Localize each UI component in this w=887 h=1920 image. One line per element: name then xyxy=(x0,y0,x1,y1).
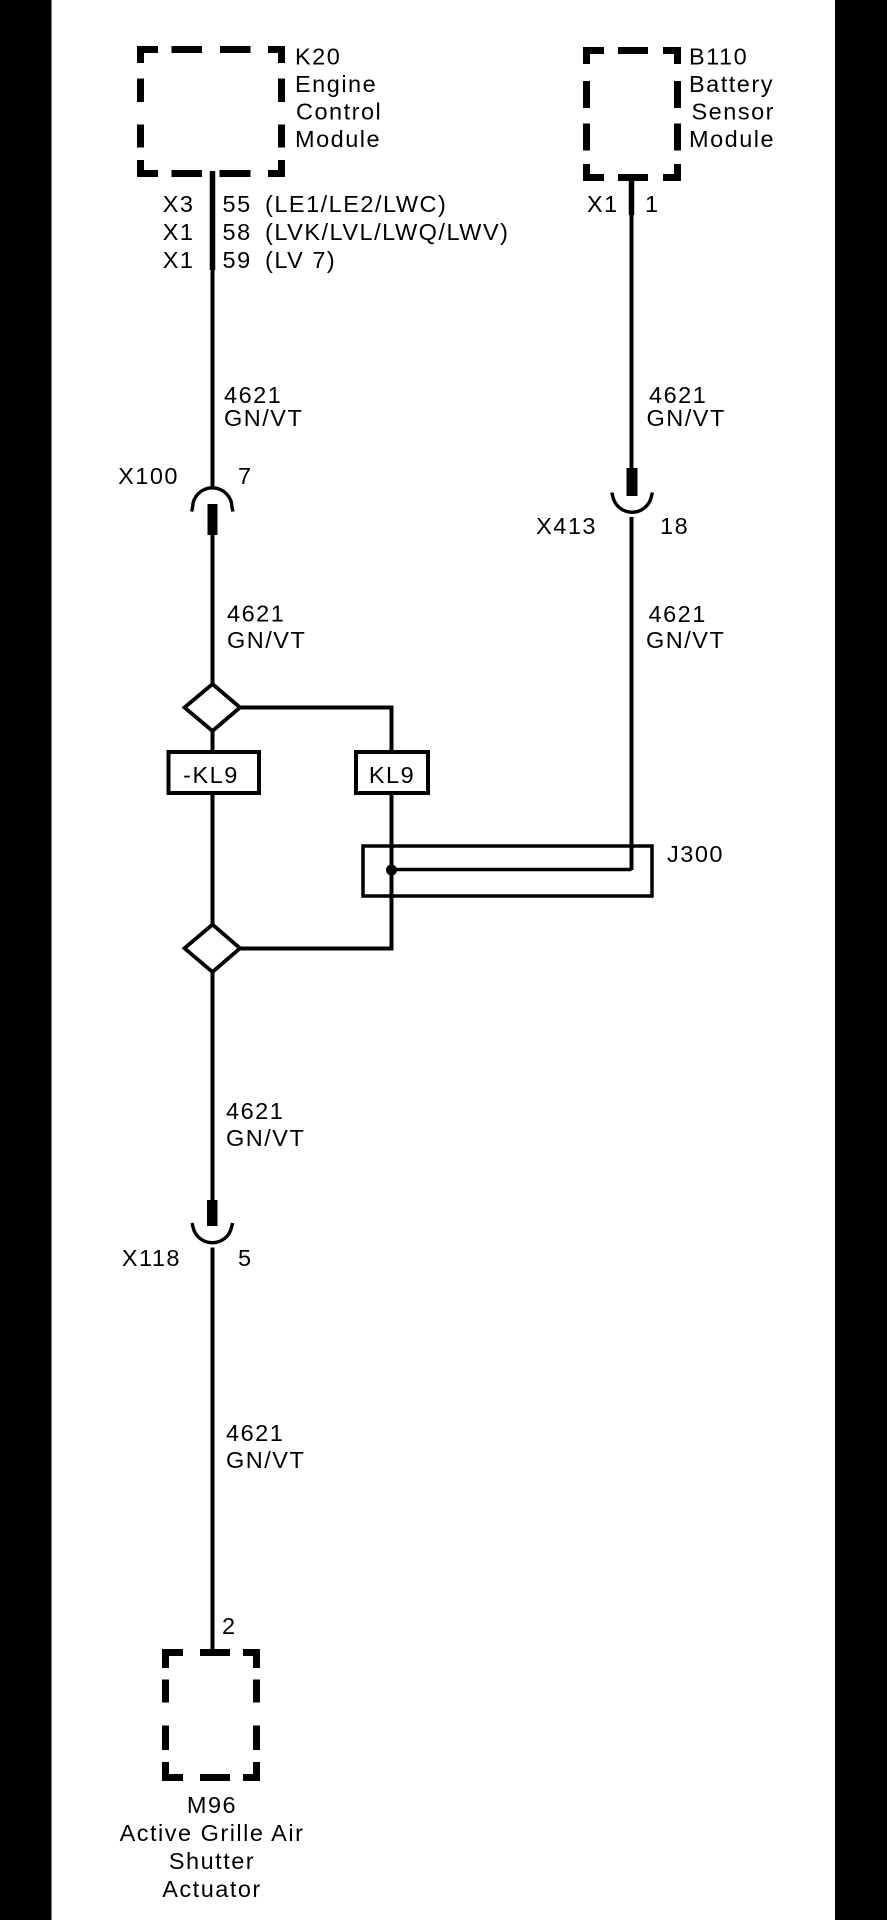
module B110 dashed box xyxy=(583,47,681,181)
wire: X413 to J300 bus xyxy=(630,517,634,870)
svg-text:7: 7 xyxy=(238,463,253,489)
splice pack J300 outer box xyxy=(363,846,652,896)
connector label X118 / 5 xyxy=(122,1245,253,1271)
svg-text:X118: X118 xyxy=(122,1245,181,1271)
svg-text:Module: Module xyxy=(295,126,381,152)
svg-text:(LVK/LVL/LWQ/LWV): (LVK/LVL/LWQ/LWV) xyxy=(265,219,509,245)
svg-text:(LV 7): (LV 7) xyxy=(265,247,336,273)
option box KL9 xyxy=(356,752,428,793)
connector X413 pin bar xyxy=(627,468,638,496)
svg-text:X413: X413 xyxy=(536,513,597,539)
svg-text:GN/VT: GN/VT xyxy=(646,627,725,653)
junction dot on J300 bus xyxy=(386,865,397,876)
svg-text:B110: B110 xyxy=(689,44,748,70)
svg-text:X1: X1 xyxy=(163,219,195,245)
svg-text:X1: X1 xyxy=(163,247,195,273)
wire: K20 pin stem (thick) xyxy=(210,171,216,270)
wire label 4621 GN/VT (right upper) xyxy=(647,382,726,431)
wire: diamond 1 to KL9 branch (horizontal) xyxy=(240,706,392,710)
svg-text:K20: K20 xyxy=(295,44,341,70)
wire: X100 to splice diamond 1 xyxy=(211,535,215,684)
connector X413 arc xyxy=(612,493,653,513)
svg-text:J300: J300 xyxy=(667,841,724,867)
label M96 actuator name xyxy=(120,1792,305,1902)
svg-text:Shutter: Shutter xyxy=(169,1848,255,1874)
wire: K20 to connector X100 xyxy=(211,171,215,489)
wire label 4621 GN/VT (left upper) xyxy=(224,382,303,431)
connector label X100 / 7 xyxy=(118,463,252,489)
svg-text:Battery: Battery xyxy=(689,71,774,97)
wire: X118 to M96 actuator xyxy=(211,1248,215,1653)
svg-text:59: 59 xyxy=(223,247,252,273)
label B110 module name xyxy=(689,44,775,153)
svg-text:Control: Control xyxy=(296,99,382,125)
option box -KL9 xyxy=(169,752,260,793)
svg-text:Active Grille Air: Active Grille Air xyxy=(120,1820,305,1846)
svg-text:4621: 4621 xyxy=(226,1098,284,1124)
svg-text:2: 2 xyxy=(222,1613,237,1639)
svg-text:-KL9: -KL9 xyxy=(183,762,239,788)
svg-text:GN/VT: GN/VT xyxy=(227,627,306,653)
svg-text:M96: M96 xyxy=(187,1792,237,1818)
connector X118 pin bar xyxy=(207,1200,218,1226)
svg-text:GN/VT: GN/VT xyxy=(226,1447,305,1473)
wire label 4621 GN/VT (right middle) xyxy=(646,601,725,653)
svg-text:Module: Module xyxy=(689,126,775,152)
svg-text:X100: X100 xyxy=(118,463,179,489)
module K20 dashed box xyxy=(137,46,285,177)
splice diamond 1 xyxy=(185,684,241,731)
module M96 dashed box xyxy=(162,1649,260,1781)
svg-text:Engine: Engine xyxy=(295,71,377,97)
B110 pin row X1 / 1 xyxy=(587,191,660,217)
wire: branch down to KL9 box xyxy=(390,706,394,751)
svg-text:4621: 4621 xyxy=(649,601,707,627)
wire label 4621 GN/VT (lower 1) xyxy=(226,1098,305,1151)
connector X100 arc xyxy=(192,488,233,512)
svg-text:Sensor: Sensor xyxy=(692,99,775,125)
svg-text:GN/VT: GN/VT xyxy=(226,1125,305,1151)
right black margin bar xyxy=(835,0,887,1920)
wire label 4621 GN/VT (left middle) xyxy=(227,601,306,654)
svg-text:18: 18 xyxy=(660,513,689,539)
svg-text:X1: X1 xyxy=(587,191,619,217)
wire: corner back to diamond 2 xyxy=(240,947,394,951)
svg-text:5: 5 xyxy=(238,1245,253,1271)
wire: diamond 2 to connector X118 xyxy=(211,972,215,1200)
splice diamond 2 xyxy=(185,925,241,973)
svg-text:1: 1 xyxy=(645,191,660,217)
wire: diamond 1 to -KL9 box xyxy=(211,731,215,750)
left black margin bar xyxy=(0,0,52,1920)
svg-text:4621: 4621 xyxy=(227,601,285,627)
connector X100 pin bar xyxy=(208,504,218,535)
svg-text:KL9: KL9 xyxy=(369,762,415,788)
wire: B110 pin stem (thick) xyxy=(629,175,635,215)
connector X118 arc xyxy=(192,1223,233,1243)
svg-text:4621: 4621 xyxy=(226,1420,284,1446)
svg-text:GN/VT: GN/VT xyxy=(647,405,726,431)
K20 pin rows xyxy=(163,191,510,273)
connector label X413 / 18 xyxy=(536,513,689,539)
label K20 module name xyxy=(295,44,382,153)
svg-text:GN/VT: GN/VT xyxy=(224,405,303,431)
svg-text:Actuator: Actuator xyxy=(162,1876,262,1902)
svg-text:58: 58 xyxy=(223,219,252,245)
wire: -KL9 box to splice diamond 2 xyxy=(211,795,215,925)
wire label 4621 GN/VT (lower 2) xyxy=(226,1420,305,1473)
svg-text:55: 55 xyxy=(223,191,252,217)
wire: B110 to connector X413 xyxy=(630,175,634,468)
svg-text:X3: X3 xyxy=(163,191,195,217)
splice pack J300 bus bar xyxy=(392,868,632,872)
wire: KL9 box down through J300 xyxy=(390,795,394,949)
svg-text:(LE1/LE2/LWC): (LE1/LE2/LWC) xyxy=(265,191,447,217)
